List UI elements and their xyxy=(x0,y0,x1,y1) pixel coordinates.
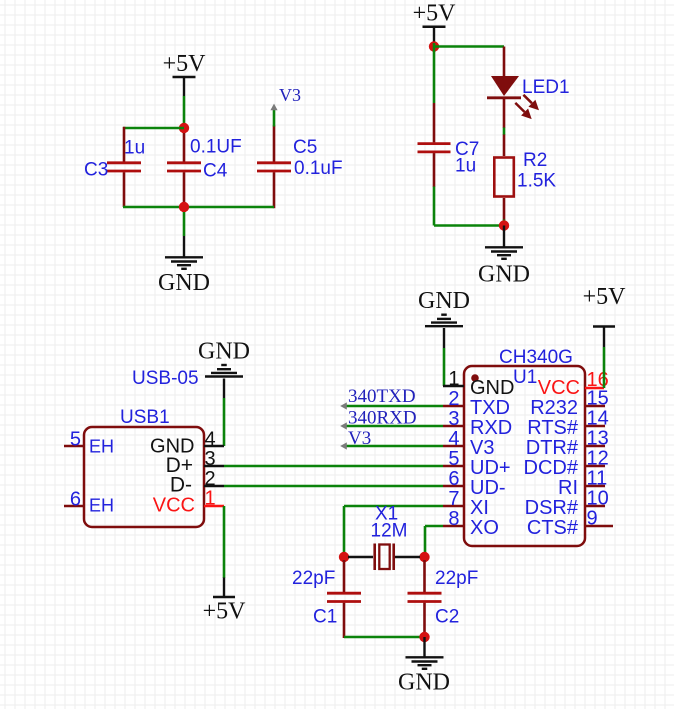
svg-text:UD-: UD- xyxy=(470,477,506,499)
connector USB1 body xyxy=(84,407,204,527)
net label 340RXD xyxy=(340,408,443,430)
wire XI net xyxy=(344,506,443,553)
svg-text:USB-05: USB-05 xyxy=(132,368,199,389)
wire xyxy=(123,127,184,130)
svg-text:5: 5 xyxy=(70,429,81,451)
svg-text:DCD#: DCD# xyxy=(524,457,579,479)
LED LED1 xyxy=(487,47,570,129)
power symbol +5V (top left) xyxy=(163,51,207,96)
svg-text:3: 3 xyxy=(448,408,459,430)
pin 5 EH xyxy=(64,429,114,457)
crystal X1 xyxy=(348,504,420,571)
svg-text:7: 7 xyxy=(448,488,459,510)
wire xyxy=(183,212,186,236)
svg-text:UD+: UD+ xyxy=(470,457,511,479)
svg-text:14: 14 xyxy=(587,408,609,430)
pin 13 DTR# xyxy=(526,428,609,460)
net label 340TXD xyxy=(340,386,443,410)
capacitor C1 xyxy=(292,560,361,638)
svg-text:C3: C3 xyxy=(84,160,108,181)
node junction xyxy=(339,552,349,562)
svg-text:USB1: USB1 xyxy=(120,407,170,428)
pin 15 R232 xyxy=(530,388,609,420)
node junction xyxy=(179,202,189,212)
power symbol +5V (top right) xyxy=(413,1,457,44)
svg-text:GND: GND xyxy=(418,288,470,314)
net label V3 (top) xyxy=(270,85,301,127)
pin 6 UD- xyxy=(443,468,506,499)
capacitor C5 xyxy=(257,126,343,209)
pin 6 EH xyxy=(64,489,114,516)
ground GND (top left) xyxy=(158,236,210,296)
svg-text:V3: V3 xyxy=(279,85,301,105)
wire xyxy=(433,43,436,103)
pin 7 XI xyxy=(443,488,489,519)
svg-text:RXD: RXD xyxy=(470,417,512,439)
pin 5 UD+ xyxy=(443,448,511,479)
wire D- net xyxy=(224,485,443,488)
pin 1 VCC xyxy=(153,488,224,517)
wire XO net xyxy=(425,526,443,553)
ground GND (above U1) xyxy=(418,288,470,348)
svg-text:1u: 1u xyxy=(124,138,145,159)
node junction xyxy=(179,123,189,133)
svg-text:C4: C4 xyxy=(203,161,228,182)
wire D+ net xyxy=(224,465,443,468)
pin 12 DCD# xyxy=(524,448,609,480)
ground GND (bottom) xyxy=(398,637,450,696)
pin 4 GND xyxy=(150,429,224,458)
svg-text:+5V: +5V xyxy=(163,51,207,77)
svg-text:RI: RI xyxy=(558,477,578,499)
svg-text:GND: GND xyxy=(470,377,514,399)
net label V3 xyxy=(340,428,443,450)
svg-text:+5V: +5V xyxy=(583,284,627,310)
pin 9 CTS# xyxy=(527,508,613,540)
ground GND (top right) xyxy=(478,226,530,288)
svg-text:R2: R2 xyxy=(523,150,547,171)
wire xyxy=(503,128,506,136)
label USB-05 xyxy=(132,368,199,389)
ground GND (above USB1) xyxy=(198,339,250,399)
svg-text:12: 12 xyxy=(587,448,609,470)
svg-text:C5: C5 xyxy=(293,137,317,158)
capacitor C3 xyxy=(84,127,145,207)
svg-text:EH: EH xyxy=(89,496,114,516)
node junction xyxy=(429,41,439,51)
svg-text:V3: V3 xyxy=(470,437,494,459)
pin 3 RXD xyxy=(443,408,512,439)
svg-text:TXD: TXD xyxy=(470,397,510,419)
svg-text:LED1: LED1 xyxy=(522,77,570,98)
pin 14 RTS# xyxy=(527,408,609,440)
power symbol +5V (below USB1) xyxy=(203,578,247,625)
wire pin1 xyxy=(443,385,464,388)
node junction xyxy=(499,220,509,230)
svg-text:1.5K: 1.5K xyxy=(517,171,556,192)
svg-text:3: 3 xyxy=(205,448,216,470)
node junction xyxy=(419,632,429,642)
svg-text:XO: XO xyxy=(470,517,499,539)
svg-text:1: 1 xyxy=(205,488,216,510)
svg-text:+5V: +5V xyxy=(413,1,457,27)
svg-text:EH: EH xyxy=(89,437,114,457)
svg-text:9: 9 xyxy=(587,508,598,530)
pin 2 D- xyxy=(170,468,224,497)
svg-text:CTS#: CTS# xyxy=(527,517,579,539)
svg-text:340TXD: 340TXD xyxy=(348,386,416,407)
svg-text:CH340G: CH340G xyxy=(499,347,573,368)
svg-text:DSR#: DSR# xyxy=(525,497,579,519)
svg-text:GND: GND xyxy=(478,262,530,288)
svg-text:22pF: 22pF xyxy=(292,568,335,589)
pin 16 VCC xyxy=(538,369,609,399)
svg-text:GND: GND xyxy=(158,270,210,296)
svg-text:VCC: VCC xyxy=(538,377,580,399)
wire xyxy=(183,96,186,126)
svg-text:6: 6 xyxy=(448,468,459,490)
svg-text:0.1UF: 0.1UF xyxy=(190,137,242,158)
svg-text:XI: XI xyxy=(470,497,489,519)
node junction xyxy=(419,552,429,562)
pin 1 GND xyxy=(448,368,514,399)
svg-text:R232: R232 xyxy=(530,397,578,419)
svg-text:5: 5 xyxy=(448,448,459,470)
svg-text:6: 6 xyxy=(70,489,81,511)
power symbol +5V (right of U1) xyxy=(583,284,627,347)
capacitor C7 xyxy=(418,103,480,187)
wire xyxy=(443,348,446,386)
svg-text:1u: 1u xyxy=(455,156,476,177)
pin 8 XO xyxy=(443,508,499,539)
wire xyxy=(223,398,226,446)
wire xyxy=(344,636,425,639)
svg-text:11: 11 xyxy=(587,468,608,490)
svg-text:10: 10 xyxy=(587,488,609,510)
resistor R2 xyxy=(494,135,556,221)
wire xyxy=(434,187,504,226)
IC U1 CH340G body xyxy=(464,347,585,546)
svg-text:8: 8 xyxy=(448,508,459,530)
pin 10 DSR# xyxy=(525,488,609,520)
svg-text:+5V: +5V xyxy=(203,599,247,625)
svg-text:DTR#: DTR# xyxy=(526,437,579,459)
svg-text:22pF: 22pF xyxy=(435,568,478,589)
svg-text:15: 15 xyxy=(587,388,609,410)
svg-text:C2: C2 xyxy=(435,607,459,628)
capacitor C2 xyxy=(408,560,479,638)
pin 2 TXD xyxy=(443,388,510,419)
pin 11 RI xyxy=(558,468,607,500)
pin 3 D+ xyxy=(166,448,224,477)
svg-text:C1: C1 xyxy=(313,607,337,628)
svg-text:VCC: VCC xyxy=(153,495,195,517)
svg-text:2: 2 xyxy=(448,388,459,410)
svg-text:4: 4 xyxy=(448,428,459,450)
wire xyxy=(603,347,606,388)
svg-text:D-: D- xyxy=(170,474,192,497)
pin 4 V3 xyxy=(443,428,494,459)
wire xyxy=(123,206,274,209)
svg-text:GND: GND xyxy=(398,670,450,696)
svg-text:U1: U1 xyxy=(513,367,537,388)
svg-text:12M: 12M xyxy=(371,521,408,542)
svg-text:13: 13 xyxy=(587,428,609,450)
svg-text:RTS#: RTS# xyxy=(527,417,579,439)
wire xyxy=(223,506,226,578)
svg-text:GND: GND xyxy=(198,339,250,365)
wire xyxy=(434,45,504,48)
svg-text:0.1uF: 0.1uF xyxy=(294,158,343,179)
capacitor C4 xyxy=(167,133,242,208)
